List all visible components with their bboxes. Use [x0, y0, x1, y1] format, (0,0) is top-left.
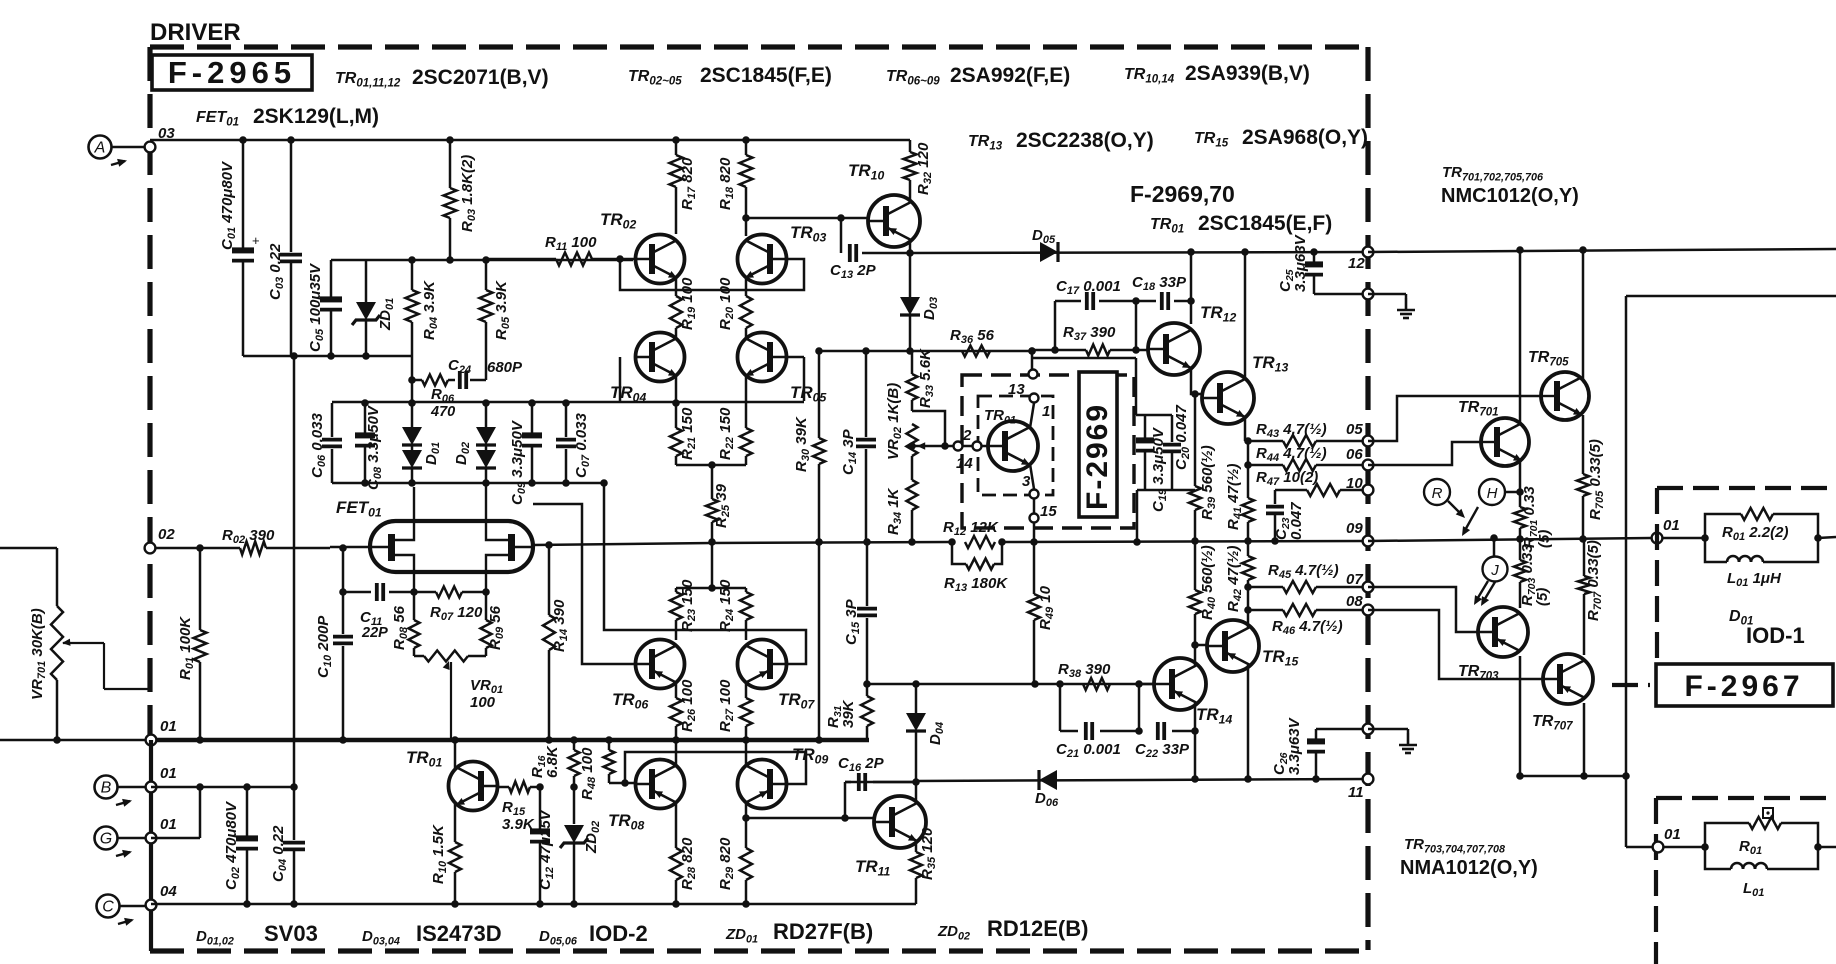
wire C17 left drop x=1055 — [1054, 301, 1057, 350]
bold rail 01 y=740 — [0, 739, 151, 742]
resistor R19 100 — [670, 277, 698, 339]
resistor R11 100 — [486, 234, 636, 266]
rail y=249 top right — [1368, 249, 1836, 252]
resistor R18 820 — [717, 140, 753, 218]
svg-text:0.047: 0.047 — [1288, 502, 1305, 540]
rail y=351 R36 row — [819, 350, 1032, 353]
wire C03 column down to B row — [293, 356, 296, 787]
svg-text:B: B — [101, 780, 112, 797]
node 03 — [145, 125, 176, 152]
svg-text:R13 180K: R13 180K — [944, 575, 1008, 594]
resistor R35 120 — [910, 827, 938, 904]
resistor R707 0.33(5) collector side — [1578, 539, 1604, 655]
svg-text:6.8K: 6.8K — [544, 745, 561, 778]
rail y=779 to node 11 — [845, 781, 916, 784]
svg-text:R29 820: R29 820 — [717, 837, 736, 890]
junction dots top rail for R17 R18 — [672, 136, 680, 144]
node 01 output — [1652, 517, 1680, 543]
wire rail y=260 — [331, 259, 633, 262]
module F-2969 inner dashed box — [978, 396, 1053, 495]
wire TR11 collector to row 782 — [915, 782, 918, 801]
svg-text:3.3μ63V: 3.3μ63V — [1292, 233, 1309, 292]
svg-text:C17 0.001: C17 0.001 — [1056, 278, 1121, 297]
wire TR03 collector to TR10 base row — [745, 218, 748, 236]
zener diode ZD02 — [560, 787, 602, 904]
ground top right — [1368, 294, 1415, 318]
dash into F-2967 box — [1612, 683, 1650, 687]
svg-text:2SC2071(B,V): 2SC2071(B,V) — [412, 66, 549, 89]
svg-text:470: 470 — [430, 404, 455, 420]
capacitor C25 3.3u63V — [1313, 252, 1316, 263]
wire TR13 emitter down — [1244, 417, 1247, 441]
resistor R49 10 — [1028, 542, 1056, 684]
svg-text:F-2965: F-2965 — [168, 55, 296, 90]
svg-text:04: 04 — [160, 883, 177, 900]
capacitor C12 47u25V — [530, 787, 556, 904]
wire C19 C20 stubs — [1136, 414, 1172, 417]
wire base row to F-2969 pin2 — [912, 445, 987, 448]
node 07 — [1346, 571, 1373, 592]
svg-text:C: C — [102, 899, 114, 916]
svg-text:R: R — [1432, 485, 1443, 502]
svg-text:R23 150: R23 150 — [679, 579, 698, 632]
capacitor C26 3.3u63V — [1271, 716, 1368, 779]
potentiometer VR02 1K(B) — [885, 383, 925, 460]
svg-text:2SA939(B,V): 2SA939(B,V) — [1185, 62, 1310, 85]
resistor R03 1.8K(2) — [444, 140, 479, 260]
base box TR04 TR05 — [619, 357, 622, 401]
junction dot C17 C18 — [1132, 297, 1140, 305]
svg-text:2: 2 — [962, 427, 972, 444]
svg-text:R01 100K: R01 100K — [177, 616, 196, 680]
wire row 06 — [1248, 464, 1283, 467]
diode D05 — [1032, 227, 1058, 262]
junction C10 top — [339, 544, 347, 552]
junction TR04 emitter rail 403 — [672, 399, 680, 407]
wire TR14 base — [1139, 683, 1154, 686]
junction dots rail 249 — [1516, 246, 1524, 254]
transistor TR03 — [738, 223, 827, 284]
arrow from R — [1448, 501, 1465, 518]
svg-text:R41 47(½): R41 47(½) — [1225, 464, 1244, 530]
resistor R703 0.33(5) collector side — [1514, 539, 1551, 608]
svg-text:680P: 680P — [487, 359, 523, 376]
svg-text:C13 2P: C13 2P — [830, 262, 877, 281]
resistor R10 1.5K — [430, 804, 461, 904]
wire J to rail — [1493, 538, 1496, 556]
svg-text:C14 3P: C14 3P — [840, 428, 859, 475]
resistor R20 100 — [717, 277, 752, 339]
resistor R42 47(1/2) — [1225, 541, 1254, 620]
wire TR15 collector emitter — [1247, 620, 1250, 628]
svg-text:R47 10(2): R47 10(2) — [1256, 469, 1318, 488]
diode D06 — [1035, 770, 1059, 809]
node gnd right mid — [1363, 724, 1374, 735]
wire TR06 base feed — [533, 504, 636, 664]
pin 15 — [1030, 499, 1058, 523]
label box F-2969 rotated — [1079, 372, 1117, 517]
bottom rail y=904 — [151, 903, 916, 906]
label TR01,11,12 2SC2071(B,V) — [335, 66, 549, 90]
resistor R16 6.8K — [529, 740, 580, 787]
svg-text:R17 820: R17 820 — [679, 157, 698, 210]
svg-text:C22 33P: C22 33P — [1135, 741, 1190, 760]
node 09 — [1346, 520, 1373, 546]
resistor R36 56 — [950, 327, 995, 357]
test point J — [1483, 557, 1508, 582]
resistor R39 560(1/2) — [1189, 394, 1218, 541]
svg-text:L01 1μH: L01 1μH — [1727, 570, 1782, 589]
transistor TR06 — [612, 640, 685, 712]
node 12 — [1348, 247, 1373, 272]
resistor R33 5.6K — [907, 348, 937, 411]
capacitor C16 2P — [838, 755, 916, 818]
wire TR01 collector to pin1 — [1030, 403, 1034, 428]
svg-text:C21 0.001: C21 0.001 — [1056, 741, 1121, 760]
svg-text:R04 3.9K: R04 3.9K — [421, 280, 440, 340]
label D05,06 IOD-2 — [539, 921, 648, 948]
resistor R30 39K — [793, 351, 825, 542]
title box F-2965 — [152, 55, 312, 90]
wire TR14 emitter to rail 779 — [1194, 703, 1197, 779]
svg-text:C06 0.033: C06 0.033 — [309, 413, 328, 478]
svg-text:R36 56: R36 56 — [950, 327, 995, 346]
svg-text:R38 390: R38 390 — [1058, 661, 1111, 680]
capacitor C11 22P — [360, 583, 388, 641]
wire TR14 collector to TR15 base — [1195, 644, 1207, 647]
svg-text:01: 01 — [1663, 517, 1680, 534]
wire rail y=403 — [332, 401, 804, 404]
pin 13 — [1008, 351, 1038, 398]
potentiometer VR01 100 — [414, 651, 503, 741]
svg-text:39K: 39K — [840, 699, 857, 728]
svg-text:2SA992(F,E): 2SA992(F,E) — [950, 64, 1070, 87]
svg-text:SV03: SV03 — [264, 921, 318, 946]
wire vert x=1136 — [1135, 301, 1138, 350]
svg-text:R22 150: R22 150 — [717, 407, 736, 460]
svg-text:C10 200P: C10 200P — [315, 615, 334, 678]
lower right dashed border — [1656, 796, 1836, 800]
svg-text:01: 01 — [160, 718, 177, 735]
wire TR703 base from node 07 — [1368, 587, 1478, 632]
resistor R05 3.9K — [480, 260, 513, 380]
svg-text:R26 100: R26 100 — [679, 679, 698, 732]
wire TR707 emitter — [1583, 703, 1586, 776]
label TR02~05 2SC1845(F,E) — [628, 64, 832, 88]
capacitor C22 33P — [1135, 722, 1199, 760]
wire C21 drop — [1059, 684, 1062, 731]
capacitor C03 0.22 — [267, 140, 302, 356]
label TR13 2SC2238(O,Y) — [968, 129, 1154, 153]
svg-text:H: H — [1487, 485, 1498, 502]
svg-text:12: 12 — [1348, 255, 1365, 272]
wire TR705 base from node 05 — [1368, 396, 1541, 441]
vertical feedback line x=1626 — [1625, 296, 1628, 847]
wire rail y=483 — [332, 482, 604, 485]
svg-text:R45 4.7(½): R45 4.7(½) — [1268, 562, 1339, 581]
resistor R29 820 — [717, 803, 752, 904]
svg-text:14: 14 — [956, 455, 973, 472]
resistor R07 120 — [430, 587, 483, 624]
svg-text:2SA968(O,Y): 2SA968(O,Y) — [1242, 126, 1368, 149]
junction dots rail 356 — [327, 352, 335, 360]
junction dots right rail — [1516, 535, 1524, 543]
svg-text:2SC1845(F,E): 2SC1845(F,E) — [700, 64, 832, 87]
node 01 B — [146, 765, 177, 792]
svg-text:DRIVER: DRIVER — [150, 19, 241, 46]
label TR701,702,705,706 NMC1012(O,Y) — [1441, 164, 1579, 207]
label TR10,14 2SA939(B,V) — [1124, 62, 1310, 86]
junction dots on 403/483 rails — [361, 399, 369, 407]
capacitor C01 470u80V — [219, 140, 260, 356]
svg-text:R02 390: R02 390 — [222, 527, 275, 546]
dashed enclosure border of DRIVER board F-2965 — [150, 47, 1368, 951]
node 06 — [1346, 446, 1373, 470]
ground right mid — [1368, 729, 1417, 753]
transistor TR15 — [1207, 620, 1298, 672]
transistor TR14 — [1154, 658, 1232, 727]
capacitor C23 0.047 — [1266, 490, 1305, 541]
svg-text:R14 390: R14 390 — [551, 599, 570, 652]
svg-text:R07 120: R07 120 — [430, 604, 483, 623]
transistor TR07 — [738, 640, 816, 712]
svg-text:R49 10: R49 10 — [1037, 585, 1056, 630]
wire R33 jog to wiper — [912, 411, 945, 446]
wire TR705 collector — [1582, 250, 1585, 379]
svg-text:R25 39: R25 39 — [713, 483, 732, 528]
label TR15 2SA968(O,Y) — [1194, 126, 1368, 150]
wire y=296 to right edge — [1626, 295, 1836, 298]
svg-text:06: 06 — [1346, 446, 1363, 463]
svg-text:3.9K: 3.9K — [502, 816, 535, 833]
node 11 — [1348, 774, 1373, 801]
resistor R40 560(1/2) — [1189, 541, 1218, 657]
resistor R48 100 — [579, 740, 615, 800]
pin 2 — [954, 427, 982, 472]
svg-text:F-2967: F-2967 — [1684, 670, 1803, 703]
junction dots rail 779 — [912, 778, 920, 786]
module F-2969 outer dashed box — [962, 375, 1134, 528]
capacitor C17 0.001 — [1056, 278, 1121, 310]
transistor TR707 — [1532, 654, 1593, 733]
wire TR705 emitter to R705 — [1582, 415, 1585, 474]
resistor R32 120 — [904, 140, 935, 196]
rail y=684 R38 row — [867, 683, 1154, 686]
svg-text:(5): (5) — [1534, 588, 1551, 606]
wire TR12 emitter to R39 — [1191, 368, 1202, 394]
node 01 left — [146, 718, 177, 745]
transistor TR09 — [738, 745, 829, 809]
svg-text:F-2969,70: F-2969,70 — [1130, 181, 1235, 207]
wire R04 column down to D01 — [411, 356, 414, 403]
node gnd top right — [1363, 289, 1374, 300]
node 04 C — [146, 883, 178, 910]
wire TR07 base feed — [604, 483, 806, 664]
svg-text:+: + — [252, 233, 260, 248]
wire row 07 — [1248, 586, 1283, 589]
wire top rail y=140 — [150, 139, 910, 142]
svg-text:2SC2238(O,Y): 2SC2238(O,Y) — [1016, 129, 1154, 152]
svg-text:NMA1012(O,Y): NMA1012(O,Y) — [1400, 857, 1538, 879]
label D01,02 SV03 — [196, 921, 318, 948]
svg-text:R34 1K: R34 1K — [885, 487, 904, 535]
wire pin13 link y=358 — [1032, 357, 1136, 360]
svg-text:R43 4.7(½): R43 4.7(½) — [1256, 421, 1327, 440]
resistor R22 150 — [717, 375, 752, 465]
wire vert x=1139 — [1138, 684, 1141, 731]
transistor TR08 — [608, 760, 685, 833]
svg-text:R44 4.7(½): R44 4.7(½) — [1256, 445, 1327, 464]
resistor R13 180K parallel loop — [944, 542, 1008, 594]
junctions rail 260 — [408, 256, 416, 264]
capacitor C21 0.001 — [1056, 722, 1139, 760]
terminal A — [89, 136, 128, 167]
svg-text:R35 120: R35 120 — [919, 827, 938, 880]
capacitor C05 100u35V — [307, 260, 342, 356]
svg-text:IOD-1: IOD-1 — [1746, 623, 1805, 648]
svg-text:VR02 1K(B): VR02 1K(B) — [885, 383, 904, 460]
svg-text:R33 5.6K: R33 5.6K — [917, 348, 936, 408]
svg-text:R32 120: R32 120 — [915, 142, 934, 195]
base box TR02 TR03 — [620, 259, 804, 290]
resistor R09 56 — [481, 592, 507, 656]
wire TR10 base row y=218 — [746, 217, 868, 220]
svg-text:C03 0.22: C03 0.22 — [267, 243, 286, 300]
svg-text:J: J — [1490, 562, 1499, 579]
diode D02 (dual) — [453, 403, 496, 483]
svg-text:R19 100: R19 100 — [679, 277, 698, 330]
svg-text:01: 01 — [160, 816, 177, 833]
svg-text:R10 1.5K: R10 1.5K — [430, 824, 449, 884]
wire pin15 to rail — [1033, 523, 1036, 542]
node 08 — [1346, 593, 1373, 615]
junction dots base row — [536, 783, 544, 791]
wire TR12 collector to rail 252 — [1190, 252, 1193, 324]
resistor R701 0.33(5) — [1514, 486, 1553, 548]
resistor R24 150 — [717, 579, 752, 640]
node 01 G — [146, 816, 177, 843]
FET01 dual JFET — [330, 485, 533, 592]
resistor R12 12K in rail — [943, 519, 1006, 548]
label TR703,704,707,708 NMA1012(O,Y) — [1400, 836, 1538, 879]
wire TR01 collector to rail 740 — [454, 740, 457, 769]
svg-text:1: 1 — [1042, 403, 1050, 420]
svg-text:01: 01 — [160, 765, 177, 782]
wire A to node 03 — [111, 146, 150, 149]
wire R30 column below rail 542 — [818, 542, 821, 740]
potentiometer VR701 30K(B) outside border — [0, 548, 150, 744]
F-2967 border dashes — [1657, 486, 1836, 490]
arrows from J — [1474, 581, 1495, 606]
wire R48 to TR08 base — [609, 782, 637, 785]
transistor TR11 — [855, 796, 926, 879]
lower output network R01 L01 — [1701, 808, 1836, 899]
svg-text:09: 09 — [1346, 520, 1363, 537]
capacitor C19 3.3u50V — [1136, 415, 1169, 512]
capacitor C08 3.3u50V — [355, 403, 384, 490]
label FET01 2SK129(L,M) — [196, 105, 379, 129]
left border solid segment — [149, 740, 153, 951]
svg-text:01: 01 — [1664, 826, 1681, 843]
svg-text:C15 3P: C15 3P — [843, 598, 862, 645]
junction dots on rail 140 — [239, 136, 247, 144]
svg-text:IS2473D: IS2473D — [416, 921, 502, 946]
resistor R01 100K — [177, 548, 207, 740]
wire TR10 collector emitter column — [909, 196, 912, 202]
label box F-2967 — [1656, 664, 1833, 706]
resistor R27 100 — [717, 679, 752, 740]
wire node01 to R01 L01 — [1662, 537, 1705, 540]
capacitor C18 33P — [1132, 274, 1187, 310]
resistor R43 4.7(1/2) — [1256, 421, 1327, 447]
resistor R08 56 — [391, 592, 420, 656]
transistor TR12 — [1148, 303, 1236, 375]
svg-text:22P: 22P — [361, 625, 388, 641]
wire TR13 collector to rail 252 — [1244, 252, 1247, 379]
svg-text:R46 4.7(½): R46 4.7(½) — [1272, 618, 1343, 637]
test point R — [1424, 479, 1450, 505]
capacitor C13 2P — [830, 218, 910, 281]
svg-text:11: 11 — [1348, 784, 1364, 801]
svg-text:R08 56: R08 56 — [391, 605, 410, 650]
capacitor C07 0.033 — [556, 403, 592, 483]
svg-text:G: G — [100, 831, 112, 848]
svg-text:F-2969: F-2969 — [1081, 403, 1114, 510]
label ZD01 RD27F(B) — [725, 919, 873, 946]
terminal B — [95, 776, 151, 807]
svg-text:13: 13 — [1008, 381, 1025, 398]
wire R21 R22 join y=465 — [676, 464, 746, 467]
resistor R34 1K — [885, 456, 918, 542]
svg-text:R30 39K: R30 39K — [793, 416, 812, 472]
junction dots rail 740 — [196, 736, 204, 744]
svg-text:08: 08 — [1346, 593, 1363, 610]
wire G row to B row — [151, 837, 200, 840]
junction dots row 592 — [339, 588, 347, 596]
junction dots R45 R46 taps — [1244, 583, 1252, 591]
svg-text:R42 47(½): R42 47(½) — [1225, 546, 1244, 612]
node 10 — [1346, 475, 1373, 495]
pin 3 — [1022, 473, 1039, 499]
transistor TR01 inside F-2969 — [984, 407, 1038, 471]
label ZD02 RD12E(B) — [937, 916, 1088, 943]
svg-text:RD12E(B): RD12E(B) — [987, 916, 1088, 941]
wire R23 R24 split y=588 — [676, 587, 746, 590]
resistor R41 47(1/2) — [1225, 441, 1254, 541]
resistor R26 100 — [670, 679, 698, 740]
label D01 IOD-1 — [1729, 608, 1805, 648]
wire TR703 emitter — [1519, 656, 1522, 776]
terminal C — [97, 895, 151, 926]
terminal G — [95, 827, 151, 858]
junction dots R43 R44 taps — [1244, 437, 1252, 445]
resistor R31 39K — [825, 684, 873, 740]
wire TR701 emitter to R701 — [1519, 460, 1522, 507]
svg-text:3: 3 — [1022, 473, 1031, 490]
resistor R45 4.7(1/2) — [1268, 562, 1339, 593]
transistor TR701 — [1458, 399, 1529, 466]
junction dots rail 684 — [863, 680, 871, 688]
svg-text:R09 56: R09 56 — [487, 605, 506, 650]
svg-text:R11 100: R11 100 — [545, 234, 597, 253]
capacitor C06 0.033 — [309, 403, 342, 483]
capacitor C20 0.047 — [1163, 405, 1192, 490]
resistor R705 0.33(5) — [1577, 439, 1606, 538]
wire rail y=356 — [243, 355, 412, 358]
svg-text:2SC1845(E,F): 2SC1845(E,F) — [1198, 212, 1332, 235]
svg-text:R20 100: R20 100 — [717, 277, 736, 330]
output network R01 L01 — [1701, 508, 1836, 589]
